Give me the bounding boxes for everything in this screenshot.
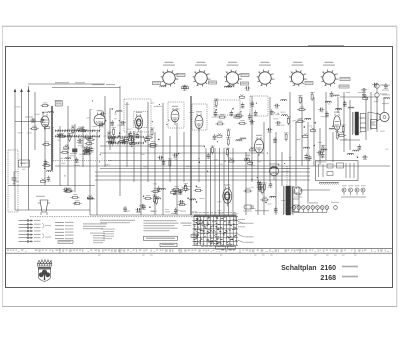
junction node <box>315 122 316 123</box>
capacitor C82 <box>206 153 210 159</box>
potentiometer P44 <box>130 141 135 145</box>
value label <box>114 117 117 120</box>
speaker terminal box <box>371 120 377 129</box>
antenna label <box>55 82 69 83</box>
junction node <box>232 108 233 109</box>
capacitor C151 <box>304 154 308 160</box>
tube V8 output pentode <box>334 112 341 134</box>
value label <box>27 132 32 135</box>
junction node <box>199 162 200 163</box>
capacitor C109 <box>135 208 141 213</box>
resistor R33 <box>148 141 157 145</box>
wire <box>313 97 315 166</box>
value label <box>321 115 326 118</box>
switch bank side labels <box>238 210 270 243</box>
title small code 2 <box>342 276 358 278</box>
value label <box>16 105 21 108</box>
wire <box>119 86 121 196</box>
value label <box>217 209 221 212</box>
wire <box>332 132 334 162</box>
page bottom edge <box>2 306 397 308</box>
resistor R133 <box>298 95 303 104</box>
value label <box>370 122 374 125</box>
value label <box>273 117 278 120</box>
wire <box>95 171 310 173</box>
capacitor C61 <box>229 110 233 116</box>
wire to switch bank <box>210 148 212 216</box>
wire <box>8 185 95 187</box>
value label <box>89 108 92 111</box>
value label <box>77 141 81 144</box>
band switch contact row <box>55 129 100 132</box>
resistor R144 <box>335 131 340 140</box>
UKW box hatched edge <box>319 183 339 185</box>
wire <box>295 122 297 186</box>
capacitor C147 <box>343 101 347 107</box>
label box near A1 <box>153 82 161 85</box>
value label <box>151 210 155 213</box>
alignment point circle A3 <box>226 72 238 84</box>
value label <box>78 137 82 140</box>
value label <box>175 108 180 111</box>
coil L211 <box>348 153 354 154</box>
antenna arrow <box>20 89 23 93</box>
junction node <box>86 148 87 149</box>
wire to switch bank <box>214 148 216 216</box>
junction node <box>129 136 130 137</box>
capacitor C91 <box>178 189 182 195</box>
page top edge <box>2 25 397 27</box>
value label <box>114 113 117 116</box>
wire <box>44 128 46 185</box>
capacitor C172 <box>30 118 36 123</box>
potentiometer P176 <box>182 85 187 89</box>
wire <box>263 122 265 215</box>
value label <box>289 156 292 159</box>
coil L26 <box>107 141 113 142</box>
capacitor C203 <box>275 121 281 126</box>
wire <box>370 92 372 130</box>
capacitor C110 <box>142 204 146 210</box>
value label <box>249 160 252 163</box>
capacitor C126 <box>329 91 333 97</box>
junction node <box>314 145 315 146</box>
switch bank header labels <box>195 211 236 214</box>
wire <box>51 106 53 170</box>
resistor R75 <box>226 129 231 138</box>
wire <box>281 152 283 186</box>
value label <box>151 102 154 105</box>
coil L129 <box>336 108 342 109</box>
wire <box>15 209 90 211</box>
capacitor C9 <box>75 157 79 163</box>
wire <box>100 168 310 170</box>
value label <box>141 153 145 156</box>
resistor R11 <box>78 127 87 131</box>
capacitor C96 <box>177 190 183 195</box>
IF transformer T1b dashed can <box>134 112 148 128</box>
resistor R130 <box>310 92 315 101</box>
wire <box>251 96 253 182</box>
capacitor C60 <box>250 101 254 107</box>
junction dots <box>64 100 290 179</box>
wire <box>176 123 178 215</box>
value label <box>359 117 363 120</box>
capacitor C93 <box>123 206 127 212</box>
value label <box>246 154 250 157</box>
legend connector rows column 1 <box>19 220 52 243</box>
tube V5 demod <box>195 111 203 131</box>
capacitor C185 <box>372 83 378 88</box>
resistor R102 <box>184 183 189 192</box>
value label <box>79 142 82 145</box>
mains plug <box>243 205 254 211</box>
coil L206 <box>282 115 288 116</box>
value label <box>385 148 388 151</box>
value label <box>125 103 130 106</box>
wire <box>28 83 105 85</box>
antenna arrow <box>14 89 17 93</box>
value label <box>174 158 177 161</box>
capacitor C45 <box>111 136 117 141</box>
capacitor block C21 <box>70 149 77 154</box>
junction node <box>75 202 76 203</box>
resistor R40 <box>121 137 130 141</box>
junction node <box>143 196 144 197</box>
capacitor C124 <box>259 181 263 187</box>
resistor R39 <box>126 136 135 140</box>
value label <box>57 139 60 142</box>
capacitor C195 <box>120 121 126 126</box>
resistor R142 <box>341 125 346 134</box>
wire <box>14 90 16 210</box>
value label <box>214 105 217 108</box>
wire <box>289 92 291 186</box>
IF transformer T1 dashed can <box>124 99 151 132</box>
junction node <box>158 139 159 140</box>
junction node <box>265 202 266 203</box>
junction node <box>196 186 197 187</box>
value label <box>68 128 71 131</box>
capacitor C145 <box>325 111 329 117</box>
resistor R108 <box>178 201 187 205</box>
svg-text:Schaltplan 2160: Schaltplan 2160 <box>281 265 336 272</box>
capacitor C122 <box>274 207 278 213</box>
wire <box>307 122 309 202</box>
capacitor C94 <box>178 200 184 205</box>
capacitor C57 <box>214 110 218 116</box>
value label <box>337 108 342 111</box>
wire <box>100 145 205 147</box>
value label <box>346 91 350 94</box>
speaker lead wires <box>367 112 369 131</box>
junction node <box>332 126 333 127</box>
junction node <box>188 198 189 199</box>
voltage selector <box>294 187 302 197</box>
resistor R62 <box>218 114 227 118</box>
coil L138 <box>333 95 339 96</box>
capacitor C200 <box>273 137 277 143</box>
coil L155 <box>321 149 327 150</box>
coil L182 <box>384 98 390 99</box>
wire <box>183 132 185 182</box>
capacitor C111 <box>174 208 178 214</box>
value label <box>344 138 347 141</box>
resistor R104 <box>172 186 181 190</box>
value label <box>157 105 162 108</box>
tube V1 AM mixer <box>41 112 49 130</box>
power transformer T10 core <box>284 186 294 215</box>
wire to switch bank <box>228 148 230 216</box>
output transformer T11 core <box>353 112 366 135</box>
wire <box>325 92 327 160</box>
value label <box>328 103 331 106</box>
label box near A4 <box>241 82 249 85</box>
wire <box>89 110 91 215</box>
resistor R92 <box>152 195 157 204</box>
value label <box>297 118 301 121</box>
junction node <box>357 157 358 158</box>
power transformer secondary winding box <box>293 187 300 212</box>
value label <box>79 153 84 156</box>
tube V3 IF amp <box>135 112 143 132</box>
potentiometer P81 <box>248 160 253 164</box>
capacitor C77 <box>212 134 216 140</box>
junction node <box>216 109 217 110</box>
tube V6 AF preamp <box>255 135 264 156</box>
resistor R15 <box>60 149 69 153</box>
coil L178 <box>228 86 234 87</box>
resistor R99 <box>143 195 152 199</box>
wire <box>169 136 171 182</box>
wire <box>376 97 378 132</box>
resistor R80 <box>225 148 230 157</box>
boxed note <box>144 236 178 240</box>
value label <box>374 100 378 103</box>
value label <box>176 209 180 212</box>
switch bank header bar <box>194 215 237 217</box>
resistor R165 <box>30 126 39 130</box>
value label <box>66 143 69 146</box>
coil L4 <box>57 134 63 135</box>
resistor R73 <box>226 137 231 146</box>
wire <box>100 152 264 154</box>
wire to switch bank <box>223 148 225 216</box>
frame top double segment <box>308 45 344 47</box>
wire <box>55 165 390 167</box>
chassis dashed line <box>30 216 203 218</box>
wire <box>301 97 303 166</box>
wire <box>21 90 23 166</box>
potentiometer P140 <box>303 133 308 137</box>
value label <box>200 197 205 200</box>
wire <box>340 139 360 141</box>
junction node <box>128 134 129 135</box>
value label <box>318 141 322 144</box>
capacitor C184 <box>384 83 388 89</box>
resistor R53 <box>168 158 173 167</box>
value label <box>165 208 169 211</box>
capacitor C52 <box>172 153 178 158</box>
junction node <box>173 194 174 195</box>
alignment point circle A4 <box>259 72 271 84</box>
resistor R41 <box>111 137 116 146</box>
wire <box>349 100 351 150</box>
resistor R97 <box>151 188 160 192</box>
coil L191 <box>47 170 53 171</box>
potentiometer P187 <box>41 178 46 182</box>
capacitor C95 <box>174 189 178 195</box>
junction node <box>133 133 134 134</box>
value label <box>181 186 185 189</box>
coil L196 <box>116 111 122 112</box>
connector strip with pins <box>292 202 339 213</box>
tube V4 IF amp 2 <box>171 106 179 125</box>
value label <box>13 182 16 185</box>
wire <box>34 92 36 150</box>
resistor R163 <box>71 194 80 198</box>
value label <box>292 119 296 122</box>
wire <box>190 96 192 215</box>
wire <box>154 132 156 215</box>
resistor R156 <box>64 188 73 192</box>
potentiometer P167 <box>44 125 49 129</box>
schematic border frame <box>6 47 393 288</box>
junction node <box>83 150 84 151</box>
page left edge <box>1 26 3 306</box>
electrolytic value labels <box>382 85 390 104</box>
junction node <box>105 120 106 121</box>
capacitor C16 <box>90 147 94 153</box>
wire <box>96 132 98 215</box>
potentiometer P8 <box>85 145 90 149</box>
capacitor C2 left rail <box>12 172 17 186</box>
wire <box>147 102 149 182</box>
value label <box>250 164 254 167</box>
wire to switch bank <box>232 148 234 216</box>
resistor R116 <box>243 188 252 192</box>
capacitor C194 <box>100 112 106 117</box>
value label <box>153 182 157 185</box>
coil L71 <box>240 138 246 139</box>
resistor R128 <box>297 107 306 111</box>
wire <box>126 102 128 167</box>
value label <box>68 134 71 137</box>
value label <box>220 163 223 166</box>
value label <box>251 207 256 210</box>
wire <box>95 175 310 177</box>
IF transformer FM box dashed can <box>214 100 240 115</box>
resistor R127 <box>296 118 305 122</box>
label box near A6 <box>340 78 350 81</box>
value label <box>233 212 238 215</box>
capacitor C21 <box>135 132 139 138</box>
label box near A2 <box>177 74 185 77</box>
tuner section dashed enclosure <box>53 127 112 161</box>
coil L177 <box>224 86 230 87</box>
capacitor C210 <box>357 144 361 150</box>
coil L135 <box>305 118 311 119</box>
potentiometer P5 <box>64 145 69 149</box>
resistor R58 <box>215 121 224 125</box>
coil label box <box>55 101 62 107</box>
value label <box>290 206 293 209</box>
alignment point circle A6 <box>323 72 335 84</box>
UKW tuner unit box <box>316 161 359 181</box>
capacitor C37 <box>128 131 132 137</box>
wire jog to V1 grid <box>15 121 41 123</box>
resistor R42 <box>150 128 155 137</box>
coil L35 <box>110 142 116 143</box>
potentiometer P76 <box>250 147 255 151</box>
value label <box>45 103 48 106</box>
junction node <box>44 168 45 169</box>
value label <box>69 154 74 157</box>
capacitor C66 <box>249 120 255 125</box>
resistor R157 <box>73 200 82 204</box>
resistor R190 <box>42 162 51 166</box>
value label <box>281 124 285 127</box>
junction node <box>119 135 120 136</box>
antenna arrow <box>27 89 30 93</box>
junction node <box>119 133 120 134</box>
junction node <box>184 185 185 186</box>
resistor R106 <box>155 196 160 205</box>
resistor R55 <box>233 114 242 118</box>
junction node <box>304 126 305 127</box>
wire <box>319 128 321 165</box>
junction node <box>43 112 44 113</box>
potentiometer P68 <box>239 94 244 98</box>
alignment point circle A2 <box>195 72 207 84</box>
dial drive label <box>92 84 104 85</box>
resistor R170 <box>42 141 51 145</box>
value label <box>22 168 25 171</box>
value label <box>61 162 65 165</box>
wire <box>340 96 378 98</box>
value label <box>127 128 132 131</box>
capacitor C192 <box>110 120 114 126</box>
value label <box>228 157 231 160</box>
AF section bottom labels <box>124 211 197 213</box>
logo clover emblem <box>39 270 50 281</box>
junction node <box>131 146 132 147</box>
value label <box>276 113 280 116</box>
value label <box>14 180 19 183</box>
capacitor C30 <box>121 139 127 144</box>
coil L112 <box>190 199 196 200</box>
wire <box>162 103 164 215</box>
capacitor block C22 <box>83 149 90 154</box>
resistor R171 <box>40 103 49 107</box>
capacitor C141 <box>318 108 324 113</box>
capacitor C63 <box>241 102 245 108</box>
capacitor C193 <box>99 123 105 128</box>
junction node <box>112 108 113 109</box>
resistor R86 <box>181 186 190 190</box>
value label <box>360 126 365 129</box>
band switch contact row <box>108 136 144 139</box>
wire <box>275 132 277 215</box>
wire riser to transformer <box>286 166 288 186</box>
wire <box>133 131 135 182</box>
wire <box>383 97 385 112</box>
grid side note <box>181 223 198 238</box>
shielding dashed box left <box>8 150 18 212</box>
label box near A3b <box>241 74 249 77</box>
value label <box>217 200 221 203</box>
value label <box>61 157 64 160</box>
